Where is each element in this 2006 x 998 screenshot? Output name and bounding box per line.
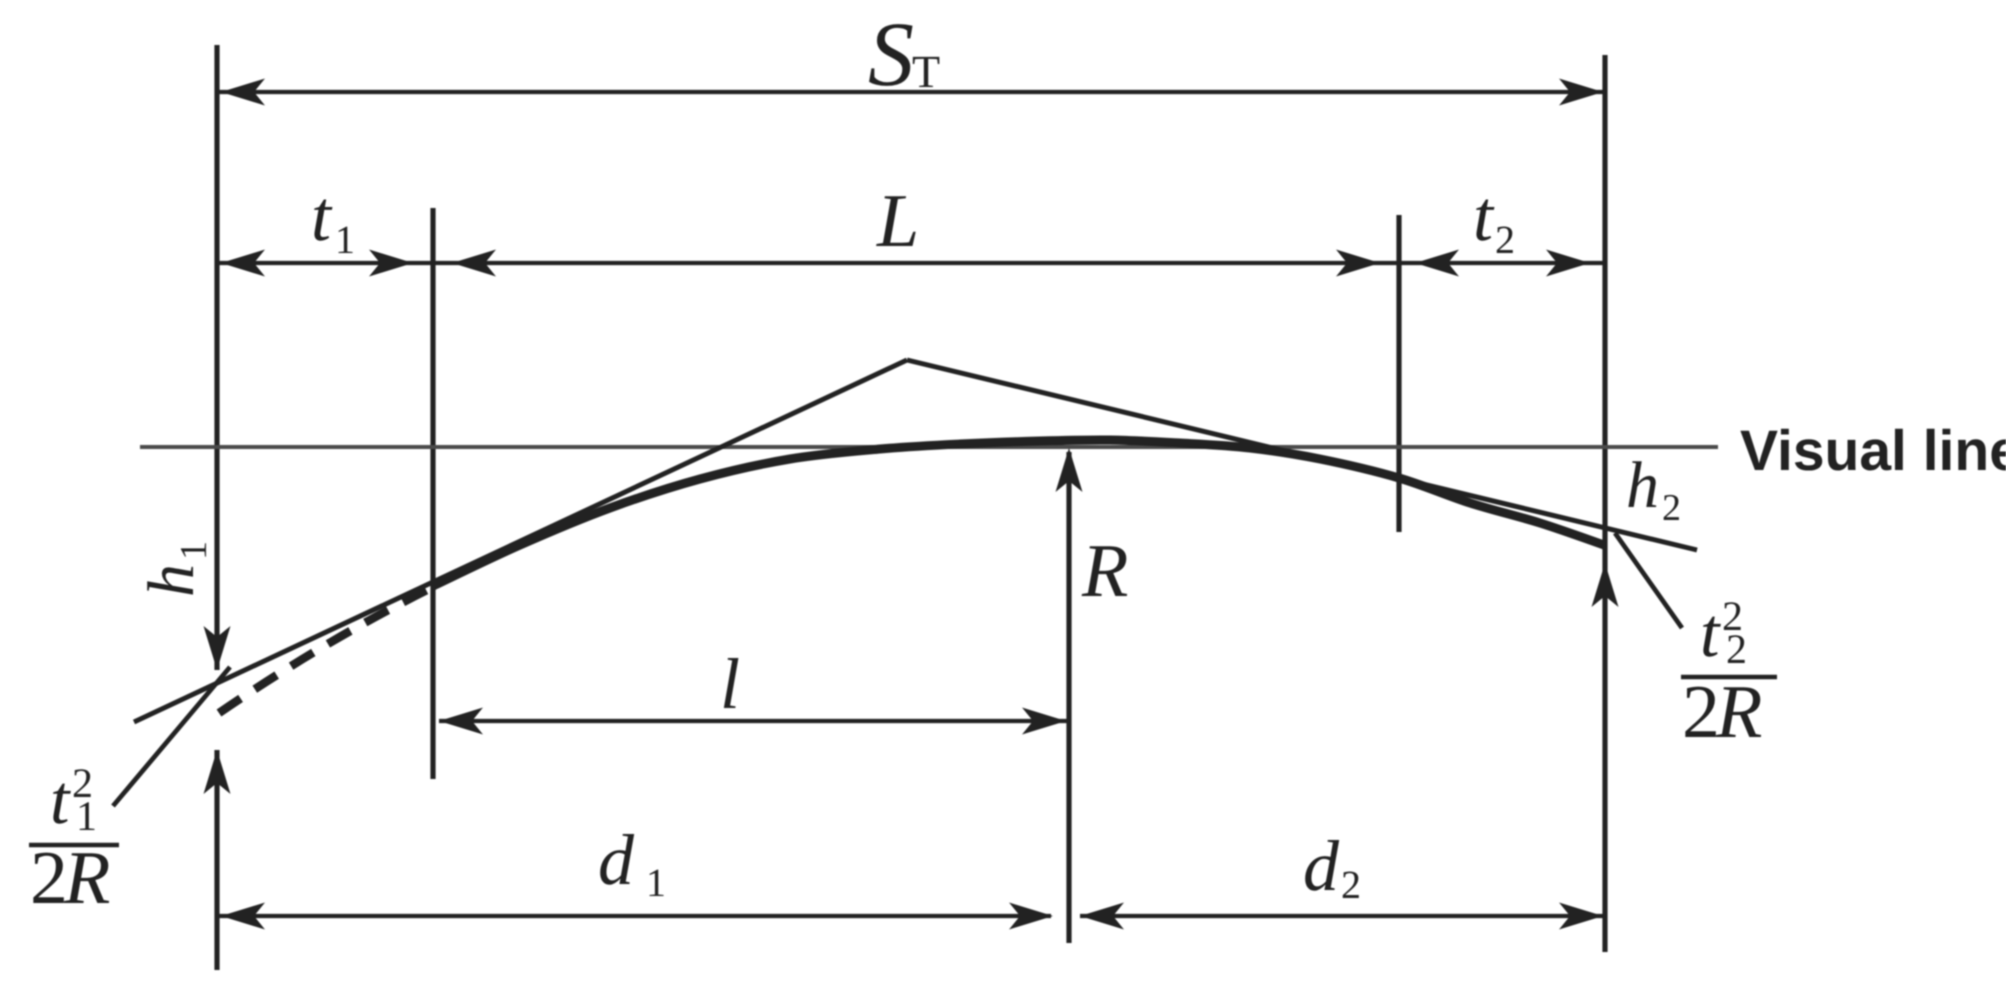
svg-text:T: T [912, 46, 940, 97]
svg-text:2: 2 [1495, 217, 1515, 262]
svg-text:1: 1 [76, 794, 97, 840]
svg-text:t: t [1473, 176, 1495, 256]
svg-text:t: t [50, 762, 71, 839]
svg-text:S: S [868, 3, 914, 105]
svg-text:d: d [598, 820, 635, 900]
svg-text:d: d [1303, 826, 1340, 906]
svg-text:Visual line: Visual line [1740, 419, 2006, 483]
svg-text:t: t [1700, 595, 1721, 672]
svg-text:1: 1 [173, 541, 215, 560]
svg-text:2: 2 [30, 836, 68, 920]
svg-text:1: 1 [646, 860, 666, 905]
svg-text:1: 1 [335, 217, 355, 262]
svg-text:L: L [876, 179, 919, 263]
svg-text:2: 2 [1662, 487, 1681, 529]
svg-text:t: t [311, 176, 333, 256]
svg-text:2: 2 [1726, 627, 1747, 673]
svg-text:h: h [135, 564, 208, 597]
svg-text:R: R [1081, 529, 1128, 613]
svg-text:R: R [1715, 670, 1762, 754]
svg-text:l: l [720, 644, 740, 724]
svg-text:h: h [1626, 449, 1659, 522]
svg-text:R: R [63, 836, 110, 920]
svg-text:2: 2 [1341, 862, 1361, 907]
svg-text:2: 2 [1682, 670, 1720, 754]
